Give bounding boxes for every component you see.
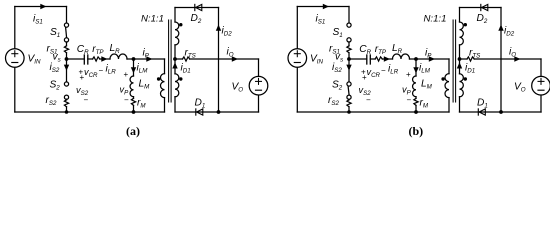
wire rTS-VO <box>474 58 541 60</box>
current arrow i_LM <box>413 67 418 73</box>
resistor r_S1 <box>64 46 68 53</box>
wire node-iLM <box>415 59 417 76</box>
label V_O <box>232 82 244 94</box>
wire secondary lower bottom lead <box>459 97 461 112</box>
transformer primary winding <box>445 74 449 98</box>
wire VO drop <box>540 59 542 76</box>
wire rM-bottom <box>415 105 417 112</box>
svg-text:+: + <box>124 70 129 79</box>
label i_O <box>509 47 516 59</box>
junction rail-bottom <box>499 110 503 114</box>
wire rS2-bottom <box>348 107 350 112</box>
label i_D2 <box>504 26 515 38</box>
label plus v_CR minus <box>361 66 386 79</box>
secondary upper polarity dot <box>464 23 467 26</box>
transformer core <box>169 20 172 102</box>
source V_IN <box>6 49 25 68</box>
wire centertap-lower <box>174 59 176 74</box>
label N:1:1 <box>424 14 447 25</box>
label v_s <box>335 52 343 64</box>
switch S1 <box>347 23 351 42</box>
secondary upper polarity dot <box>179 23 182 26</box>
label r_S1 <box>329 44 340 56</box>
svg-text:−: − <box>124 96 129 105</box>
svg-text:N:1:1: N:1:1 <box>424 14 447 25</box>
switch S2 <box>347 82 351 99</box>
wire secondary upper lead <box>459 8 461 23</box>
inductor L_M <box>130 76 133 97</box>
svg-text:+: + <box>80 73 85 82</box>
wire VO-bottom <box>258 95 260 112</box>
label r_TP <box>375 44 387 56</box>
current arrow i_D1 <box>457 62 462 68</box>
wire node-CR <box>67 58 85 60</box>
wire switch rail upper <box>66 7 68 24</box>
current arrow i_O <box>514 56 520 61</box>
secondary lower polarity dot <box>179 77 182 80</box>
inductor L_M <box>413 76 416 97</box>
label i_LR <box>388 64 399 76</box>
node LM branch <box>132 57 136 61</box>
junction LM-bottom <box>414 110 418 114</box>
wire rTS-VO <box>190 58 259 60</box>
wire rTP-LR <box>100 58 110 60</box>
wire top <box>15 6 67 8</box>
svg-text:+: + <box>406 70 411 79</box>
current arrow i_D2 <box>216 25 221 31</box>
resistor r_S2 <box>347 100 351 107</box>
label i_LR <box>106 64 117 76</box>
diode D2 <box>481 4 488 10</box>
junction bottom-left <box>65 110 69 114</box>
wire bottom secondary <box>460 111 542 113</box>
secondary lower polarity dot <box>464 77 467 80</box>
wire rS1-node <box>348 53 350 59</box>
label D_1 <box>477 98 488 110</box>
wire LR-node <box>127 58 165 60</box>
wire right rail <box>218 8 220 113</box>
label r_M <box>420 98 429 110</box>
label r_M <box>137 98 146 110</box>
resistor r_S2 <box>64 100 68 107</box>
label i_P <box>425 48 432 60</box>
label i_S1 <box>316 14 326 26</box>
wire CR-rTP <box>370 58 375 60</box>
label V_IN <box>28 54 42 66</box>
label C_R <box>77 44 89 56</box>
transformer secondary lower winding <box>175 74 179 97</box>
current arrow i_S1 <box>323 4 329 9</box>
wire primary bottom lead <box>448 98 450 112</box>
label i_LM <box>419 63 431 75</box>
inductor L_R <box>393 54 410 59</box>
label i_LM <box>137 63 149 75</box>
wire primary top lead <box>164 59 166 74</box>
junction bottom-left <box>347 110 351 114</box>
resistor r_TS <box>183 57 190 61</box>
svg-text:(b): (b) <box>409 124 424 138</box>
svg-text:−: − <box>381 66 386 75</box>
current arrow i_D2 <box>498 25 503 31</box>
wire centertap-rTS <box>175 58 183 60</box>
wire left rail upper <box>14 7 16 49</box>
wire VO drop <box>258 59 260 76</box>
label D_2 <box>477 13 488 25</box>
node v_s <box>347 57 351 61</box>
wire bottom <box>15 111 165 113</box>
wire right rail <box>500 8 502 113</box>
source V_IN <box>288 49 307 68</box>
current arrow i_S2 <box>346 65 351 71</box>
wire left rail lower <box>14 68 16 112</box>
figure label (a) <box>126 124 140 138</box>
primary polarity dot <box>157 77 160 80</box>
resistor r_TS <box>467 57 474 61</box>
transformer secondary upper winding <box>175 22 179 45</box>
label plus v_P minus <box>120 70 130 105</box>
label i_D1 <box>465 63 475 75</box>
label plus v_S2 minus <box>76 73 89 105</box>
label i_S2 <box>50 62 60 74</box>
diode D1 <box>196 109 203 115</box>
wire S2-rS2 <box>66 98 68 101</box>
diode D2 <box>195 4 202 10</box>
wire node-iLM <box>133 59 135 76</box>
transformer secondary upper winding <box>460 22 464 45</box>
svg-text:(a): (a) <box>126 124 140 138</box>
current arrow i_LR <box>101 56 107 61</box>
label S_1 <box>333 27 343 39</box>
transformer primary winding <box>161 74 165 98</box>
resistor r_S1 <box>347 46 351 53</box>
resistor r_TP <box>93 57 100 61</box>
wire node-S2 <box>66 59 68 82</box>
label i_D2 <box>222 26 233 38</box>
wire switch rail upper <box>348 7 350 24</box>
current arrow i_D1 <box>172 62 177 68</box>
wire VO-bottom <box>540 95 542 112</box>
wire LM-rM <box>133 97 135 99</box>
current arrow i_P <box>146 56 152 61</box>
label V_IN <box>310 54 324 66</box>
source V_O <box>249 76 268 95</box>
label S_2 <box>50 80 61 92</box>
wire LM-rM <box>415 97 417 99</box>
label r_S2 <box>328 95 340 107</box>
wire primary bottom lead <box>164 98 166 112</box>
svg-text:−: − <box>366 96 371 105</box>
source V_O <box>532 76 550 95</box>
capacitor C_R <box>367 55 371 64</box>
label C_R <box>359 44 371 56</box>
inductor L_R <box>110 54 127 59</box>
label i_P <box>143 48 150 60</box>
resistor r_M <box>131 98 135 105</box>
label r_TS <box>469 48 481 60</box>
wire rTP-LR <box>382 58 392 60</box>
label i_S2 <box>332 62 342 74</box>
label r_S2 <box>46 95 58 107</box>
wire S1-rS1 <box>66 42 68 46</box>
label i_O <box>227 47 234 59</box>
svg-text:−: − <box>407 96 412 105</box>
center tap junction <box>458 57 462 61</box>
wire left rail lower <box>296 68 298 112</box>
current arrow i_S1 <box>40 4 46 9</box>
wire secondary upper-centertap <box>174 45 176 59</box>
label r_TS <box>185 48 197 60</box>
label v_s <box>53 52 61 64</box>
label plus v_P minus <box>402 70 412 105</box>
wire rS1-node <box>66 53 68 59</box>
node v_s <box>65 57 69 61</box>
label L_M <box>139 79 151 91</box>
wire secondary upper lead <box>174 8 176 23</box>
junction rail-bottom <box>217 110 221 114</box>
center tap junction <box>173 57 177 61</box>
label S_2 <box>332 80 343 92</box>
current arrow i_LM <box>131 67 136 73</box>
current arrow i_S2 <box>64 65 69 71</box>
capacitor C_R <box>84 55 88 64</box>
wire rM-bottom <box>133 105 135 112</box>
wire node-S2 <box>348 59 350 82</box>
primary polarity dot <box>441 77 444 80</box>
wire centertap-lower <box>459 59 461 74</box>
wire top <box>297 6 349 8</box>
label L_R <box>392 43 403 55</box>
node LM branch <box>414 57 418 61</box>
label i_D1 <box>181 63 191 75</box>
wire left rail upper <box>296 7 298 49</box>
junction LM-bottom <box>132 110 136 114</box>
label L_R <box>110 43 121 55</box>
svg-text:+: + <box>362 73 367 82</box>
label D_2 <box>191 13 202 25</box>
resistor r_M <box>414 98 418 105</box>
wire secondary lower bottom lead <box>174 97 176 112</box>
switch S2 <box>64 82 68 99</box>
label V_O <box>514 82 526 94</box>
figure label (b) <box>409 124 424 138</box>
svg-text:N:1:1: N:1:1 <box>141 14 164 25</box>
label L_M <box>421 79 433 91</box>
label N:1:1 <box>141 14 164 25</box>
label plus v_CR minus <box>79 66 104 79</box>
wire D2 top <box>460 7 502 9</box>
label S_1 <box>50 27 60 39</box>
transformer core <box>453 20 456 102</box>
label i_S1 <box>33 14 43 26</box>
wire rS2-bottom <box>66 107 68 112</box>
svg-text:−: − <box>84 96 89 105</box>
current arrow i_LR <box>384 56 390 61</box>
current arrow i_P <box>429 56 435 61</box>
switch S1 <box>64 23 68 42</box>
wire S1-rS1 <box>348 42 350 46</box>
resistor r_TP <box>375 57 382 61</box>
svg-text:−: − <box>99 66 104 75</box>
label plus v_S2 minus <box>359 73 372 105</box>
wire bottom secondary <box>175 111 259 113</box>
wire bottom <box>297 111 449 113</box>
wire centertap-rTS <box>460 58 468 60</box>
wire secondary upper-centertap <box>459 45 461 59</box>
label r_S1 <box>47 44 58 56</box>
wire LR-node <box>410 58 450 60</box>
label r_TP <box>92 44 104 56</box>
label D_1 <box>195 98 206 110</box>
wire S2-rS2 <box>348 98 350 101</box>
wire CR-rTP <box>88 58 93 60</box>
wire D2 top <box>175 7 219 9</box>
transformer secondary lower winding <box>460 74 464 97</box>
diode D1 <box>478 109 485 115</box>
current arrow i_O <box>232 56 238 61</box>
wire primary top lead <box>448 59 450 74</box>
wire node-CR <box>349 58 367 60</box>
